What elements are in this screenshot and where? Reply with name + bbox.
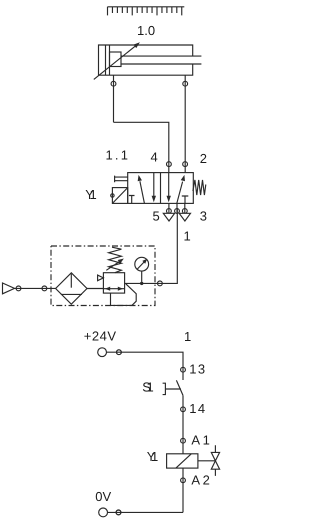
- pressure gauge: [135, 257, 149, 282]
- air service unit enclosure (dash-dot): [51, 246, 155, 306]
- svg-text:S1: S1: [142, 380, 154, 395]
- 0V supply terminal: [95, 489, 121, 517]
- compressed air source: [3, 283, 15, 294]
- valve port 2 node: [183, 162, 188, 167]
- wire valve port 1 down: [125, 208, 178, 283]
- cylinder port node right: [183, 81, 188, 86]
- wire A2 to 0V rail: [108, 511, 183, 513]
- valve target icon: [211, 445, 219, 476]
- cylinder port node left: [111, 81, 116, 86]
- valve chamber divider: [160, 173, 162, 204]
- valve port 1 node: [175, 209, 180, 214]
- regulator spring: [109, 247, 122, 273]
- svg-text:2: 2: [200, 151, 207, 166]
- terminal 14 node: [181, 407, 186, 412]
- +24V supply terminal: [84, 329, 122, 357]
- switch S1 plunger: [163, 383, 181, 394]
- cylinder port stubs: [114, 75, 186, 172]
- cylinder piston rod: [121, 56, 201, 64]
- wire filter to regulator: [87, 288, 103, 290]
- solenoid connection circle: [111, 194, 114, 197]
- terminal 13 node: [181, 367, 186, 372]
- valve port 5 node: [167, 209, 172, 214]
- filter with water separator: [56, 273, 87, 304]
- 0V connection node: [116, 510, 121, 515]
- wire +24V rail: [107, 352, 183, 380]
- svg-text:1.0: 1.0: [137, 23, 155, 38]
- measuring scale (ruler): [108, 7, 185, 16]
- svg-text:Y1: Y1: [147, 449, 159, 464]
- junction node gauge tap: [140, 282, 143, 285]
- regulator pilot line: [111, 284, 137, 306]
- cylinder cushion boss: [110, 52, 122, 67]
- svg-text:5: 5: [153, 209, 160, 224]
- wire coil to valve icon: [198, 460, 216, 462]
- left chamber: blocked port T: [129, 196, 135, 204]
- svg-text:1: 1: [184, 229, 191, 244]
- valve 1.1 body: [128, 173, 194, 204]
- solenoid diagonal: [112, 188, 127, 204]
- regulator adjust arrow: [106, 259, 124, 271]
- valve port 3 node: [182, 209, 187, 214]
- unit outlet node: [158, 281, 163, 286]
- svg-text:+24V: +24V: [84, 329, 117, 344]
- regulator vent triangle: [98, 275, 104, 281]
- solenoid Y1 box: [112, 188, 127, 204]
- source node: [16, 286, 21, 291]
- coil diagonal: [176, 454, 191, 468]
- wire coil to A2: [182, 468, 184, 512]
- cylinder piston: [106, 45, 110, 75]
- valve port 4 node: [167, 162, 172, 167]
- relay coil Y1: [167, 454, 198, 468]
- svg-text:3: 3: [200, 209, 207, 224]
- valve bottom port stubs: [169, 203, 185, 213]
- exhaust triangle port 5: [163, 213, 174, 221]
- cylinder 1.0 body: [99, 45, 193, 75]
- manual override: [115, 176, 128, 183]
- return spring: [193, 180, 206, 195]
- wire cylinder left to valve port 4: [114, 122, 169, 172]
- right chamber: blocked port T: [182, 196, 189, 203]
- right chamber: flow arrow 4 to 5: [167, 173, 171, 203]
- terminal A1 node: [181, 438, 186, 443]
- svg-text:1.1: 1.1: [106, 148, 131, 163]
- svg-text:13: 13: [189, 362, 206, 377]
- wire switch to 14: [182, 395, 184, 453]
- exhaust triangle port 3: [179, 213, 190, 221]
- cushion adjust arrow: [94, 42, 140, 79]
- left chamber: flow arrow 1 to 4: [138, 175, 145, 203]
- svg-text:4: 4: [151, 150, 158, 165]
- wire source to unit: [15, 287, 56, 289]
- svg-text:Y1: Y1: [85, 187, 97, 202]
- svg-text:1: 1: [184, 329, 191, 344]
- regulator flow line with arrows: [103, 287, 124, 291]
- svg-text:14: 14: [189, 401, 206, 416]
- terminal A2 node: [181, 478, 186, 483]
- left chamber: flow arrow 2 to 3: [152, 173, 156, 203]
- pressure regulator body: [103, 273, 124, 293]
- +24V connection node: [117, 350, 122, 355]
- unit inlet node: [42, 286, 47, 291]
- right chamber: flow arrow 1 to 2: [177, 175, 185, 204]
- svg-text:0V: 0V: [95, 489, 111, 504]
- switch S1 blade: [176, 380, 183, 395]
- svg-text:A1: A1: [191, 433, 212, 448]
- svg-text:A2: A2: [191, 472, 212, 487]
